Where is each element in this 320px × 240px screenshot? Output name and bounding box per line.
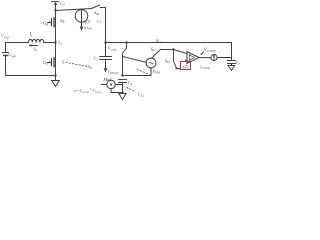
capacitor C2 — [105, 43, 107, 57]
svg-text:Vcomp: Vcomp — [204, 48, 216, 53]
svg-text:SE: SE — [88, 64, 92, 70]
output wire — [199, 57, 211, 59]
svg-text:Icomp: Icomp — [199, 64, 210, 70]
svg-text:L: L — [29, 32, 33, 38]
wire tap down — [123, 43, 127, 76]
wire VM bottom — [150, 68, 152, 76]
current arrow iL — [31, 45, 38, 47]
svg-text:C4: C4 — [236, 60, 240, 66]
leader SE — [66, 62, 88, 66]
wire Vsup to inductor — [6, 42, 29, 44]
node Vin — [54, 9, 56, 11]
svg-text:SR: SR — [60, 18, 64, 24]
capacitor C4 — [228, 60, 236, 62]
wire Vin node down to transistor SR — [55, 11, 57, 43]
node Vout — [104, 41, 106, 43]
transistor SR — [53, 18, 55, 28]
svg-text:C2: C2 — [94, 56, 99, 62]
capacitor C3 — [119, 79, 127, 81]
inductor L — [29, 39, 44, 42]
svg-text:+: + — [188, 52, 191, 57]
top rail Vin to switch SM — [56, 9, 92, 11]
svg-text:Sa1: Sa1 — [151, 46, 157, 52]
wire to right — [217, 57, 231, 59]
wire switch node down to GE — [55, 43, 57, 76]
ground right — [231, 64, 233, 66]
voltmeter VM — [146, 58, 156, 68]
svg-text:a·ivds: a·ivds — [84, 25, 93, 31]
svg-text:a=Vcomp*/Vmeas: a=Vcomp*/Vmeas — [74, 87, 103, 94]
leader VVM — [137, 69, 150, 74]
current source i1 — [75, 10, 88, 23]
svg-text:GE: GE — [43, 60, 48, 66]
ground — [55, 76, 57, 81]
node meas — [121, 74, 123, 76]
svg-text:Vsup: Vsup — [1, 34, 10, 40]
Vout rail — [106, 42, 232, 44]
svg-text:SM: SM — [94, 10, 99, 16]
svg-text:C12: C12 — [138, 92, 144, 98]
svg-text:iE: iE — [62, 59, 65, 65]
wire to voltmeter — [123, 57, 147, 63]
svg-text:VVM: VVM — [153, 69, 160, 75]
svg-text:iL: iL — [34, 46, 37, 52]
svg-text:Sa2: Sa2 — [156, 38, 162, 44]
svg-text:Vout: Vout — [108, 47, 117, 52]
node at GE source — [54, 74, 56, 76]
svg-text:Sb1: Sb1 — [165, 58, 171, 64]
leader C12 — [127, 87, 136, 91]
svg-text:GR: GR — [43, 21, 48, 27]
switch Sa1 — [152, 50, 161, 59]
node rail tap — [125, 41, 127, 43]
node switch-node — [54, 41, 56, 43]
svg-text:Vin: Vin — [59, 2, 65, 7]
wire C1 branch — [105, 8, 107, 43]
svg-text:Vmeas: Vmeas — [107, 70, 119, 75]
svg-text:Mod: Mod — [102, 77, 112, 82]
svg-text:C3: C3 — [128, 80, 133, 86]
ground — [122, 92, 124, 95]
transistor GE — [53, 58, 55, 68]
svg-text:(Z): (Z) — [183, 64, 189, 69]
wire Sa1 to op-amp — [161, 50, 188, 54]
source Usup — [5, 43, 7, 53]
probe Vmeas — [105, 60, 107, 69]
svg-text:i1(t): i1(t) — [84, 19, 91, 25]
switch SM — [92, 5, 100, 9]
svg-text:L3: L3 — [57, 40, 62, 46]
wire inductor to switch node — [44, 42, 56, 44]
feedback switch Sb1 — [174, 50, 178, 70]
svg-text:Usup: Usup — [8, 52, 16, 58]
op-amp U1 — [187, 52, 199, 64]
svg-text:C1: C1 — [97, 19, 102, 25]
bottom-left rail — [6, 75, 56, 77]
supply Vin symbol — [52, 1, 59, 3]
current probe Icomp — [211, 54, 217, 60]
right rail down — [231, 43, 233, 61]
impedance Z — [177, 60, 191, 69]
